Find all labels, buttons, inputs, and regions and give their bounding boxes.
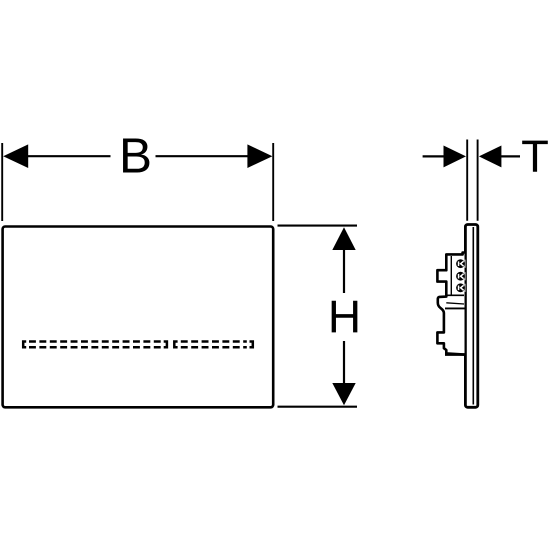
slot right (dashed) <box>174 342 253 348</box>
H extension line top <box>278 225 358 227</box>
housing outline <box>437 253 464 355</box>
housing inner vertical line <box>450 256 452 295</box>
T extension line left <box>466 140 468 221</box>
T dimension line right (arrow from right) <box>497 155 520 157</box>
screw 3 <box>456 283 465 292</box>
H dimension line upper segment <box>343 244 345 293</box>
housing inner line 2 <box>445 307 466 309</box>
T label <box>522 141 548 172</box>
B label <box>123 138 149 172</box>
H arrowhead bottom <box>332 383 355 405</box>
screw 1 <box>456 259 465 268</box>
screw clearance tabs <box>464 260 466 292</box>
H extension line bottom <box>278 406 358 408</box>
B arrowhead right <box>247 144 272 168</box>
T arrowhead left pointing right <box>444 146 467 168</box>
slot left (dashed) <box>23 342 167 348</box>
screw 2 <box>456 272 465 281</box>
housing inner slanted line <box>446 303 464 304</box>
H dimension line lower segment <box>343 341 345 389</box>
B dimension line right segment <box>156 155 257 157</box>
side plate inner face line <box>472 227 474 405</box>
H label <box>332 301 358 333</box>
B extension line right <box>272 143 274 221</box>
housing bottom edge <box>445 353 465 356</box>
B extension line left <box>1 143 3 221</box>
B arrowhead left <box>3 144 28 168</box>
side plate body <box>465 225 477 408</box>
housing inner line 1 <box>446 294 464 296</box>
T extension line right <box>477 140 479 221</box>
T dimension line left (arrow from left) <box>423 155 448 157</box>
H arrowhead top <box>332 227 355 250</box>
T arrowhead right pointing left <box>479 146 502 168</box>
B dimension line left segment <box>20 155 111 157</box>
front plate outline <box>3 227 274 408</box>
